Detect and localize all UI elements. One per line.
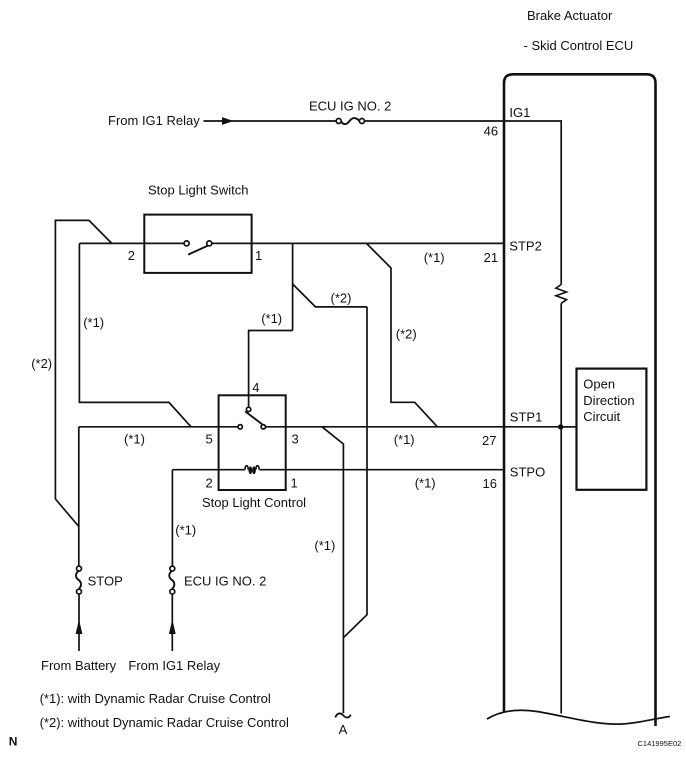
wire (*2) jog down to STOP fuse line xyxy=(55,499,78,527)
svg-text:Stop Light Switch: Stop Light Switch xyxy=(148,183,248,198)
wire STP2 row: switch pin2 side xyxy=(79,242,184,244)
svg-text:Brake Actuator: Brake Actuator xyxy=(527,8,613,23)
svg-text:3: 3 xyxy=(292,432,299,447)
junction dot on STP1 line xyxy=(558,424,563,429)
fuse ECU IG NO. 2 (top) xyxy=(336,118,364,124)
svg-text:4: 4 xyxy=(252,380,259,395)
svg-text:N: N xyxy=(9,735,18,749)
relay blade xyxy=(245,411,262,424)
arrow on IG1 feed wire xyxy=(222,117,234,125)
svg-text:(*1): (*1) xyxy=(314,538,335,553)
break symbol above node A xyxy=(335,713,350,717)
resistor inside ECU xyxy=(556,285,567,304)
svg-text:(*1): (*1) xyxy=(175,523,196,538)
svg-text:From Battery: From Battery xyxy=(41,658,117,673)
svg-text:1: 1 xyxy=(255,248,262,263)
relay contact pin5 xyxy=(238,425,242,429)
ECU block Brake Actuator / Skid Control ECU outline xyxy=(504,74,656,726)
svg-text:(*2): (*2) xyxy=(331,291,352,306)
svg-text:2: 2 xyxy=(128,248,135,263)
relay contact pin4 xyxy=(246,407,250,411)
svg-text:STOP: STOP xyxy=(88,574,123,589)
wire (*2) right path STP2 to STP1 xyxy=(367,243,438,426)
relay coil in Stop Light Control xyxy=(245,466,259,474)
wire STP1 row left: corner to control pin 5 xyxy=(79,426,238,428)
wire From IG1 Relay to top fuse xyxy=(204,120,337,122)
fuse ECU IG NO. 2 (bottom) xyxy=(169,566,174,594)
svg-text:Stop Light Control: Stop Light Control xyxy=(202,495,306,510)
svg-text:1: 1 xyxy=(291,476,298,491)
wire STP1 row right: control pin 3 to ECU xyxy=(266,426,562,428)
wire From IG1 Relay riser with arrow xyxy=(171,594,173,651)
svg-text:21: 21 xyxy=(484,250,498,265)
svg-text:- Skid Control ECU: - Skid Control ECU xyxy=(524,38,634,53)
svg-text:(*1): (*1) xyxy=(261,311,282,326)
wire STPO row left of coil xyxy=(172,469,245,471)
wire junction to Open Direction Circuit box xyxy=(561,426,575,428)
svg-text:27: 27 xyxy=(482,433,496,448)
svg-text:(*1): (*1) xyxy=(124,432,145,447)
stop light switch blade xyxy=(188,246,207,255)
svg-text:From IG1 Relay: From IG1 Relay xyxy=(108,113,200,128)
svg-text:16: 16 xyxy=(483,476,497,491)
box Open Direction Circuit xyxy=(577,369,647,490)
svg-text:(*1): with Dynamic Radar Cruis: (*1): with Dynamic Radar Cruise Control xyxy=(40,691,271,706)
stop light switch contacts xyxy=(184,241,212,246)
wire STP1 branch down to A xyxy=(322,427,343,714)
wire top-left branch (corner) to STP2 row xyxy=(55,220,111,499)
svg-text:A: A xyxy=(339,722,348,737)
svg-text:Open: Open xyxy=(583,377,615,392)
wire jog to control pin 4 xyxy=(249,331,293,408)
wire top fuse to ECU pin IG1 and internal run to resistor xyxy=(365,121,562,285)
svg-text:C141995E02: C141995E02 xyxy=(638,739,682,748)
box Stop Light Control xyxy=(219,395,286,490)
svg-text:(*1): (*1) xyxy=(394,432,415,447)
svg-text:2: 2 xyxy=(206,476,213,491)
wire STP1 row corner down to STOP fuse xyxy=(78,427,80,566)
svg-text:5: 5 xyxy=(206,432,213,447)
wire STP2 down-branch at x=292.6 xyxy=(292,243,294,330)
svg-text:STP2: STP2 xyxy=(509,239,542,254)
wire From Battery riser with arrow xyxy=(78,594,80,651)
wire switch pin2 down (*1) path to STP1 row xyxy=(79,243,191,426)
wire control pin2 down to bottom fuse xyxy=(171,470,173,567)
svg-text:(*2): (*2) xyxy=(31,356,52,371)
wire STPO row right of coil xyxy=(259,469,504,471)
svg-text:ECU IG NO. 2: ECU IG NO. 2 xyxy=(309,99,391,114)
svg-text:From IG1 Relay: From IG1 Relay xyxy=(128,658,220,673)
svg-text:(*2): (*2) xyxy=(396,327,417,342)
relay contact pin3 xyxy=(261,425,265,429)
svg-text:46: 46 xyxy=(484,124,498,139)
box Stop Light Switch xyxy=(144,215,251,273)
svg-text:(*2): without Dynamic Radar Cr: (*2): without Dynamic Radar Cruise Contr… xyxy=(40,715,289,730)
svg-text:(*1): (*1) xyxy=(415,476,436,491)
svg-text:Circuit: Circuit xyxy=(583,409,620,424)
svg-text:Direction: Direction xyxy=(583,393,634,408)
svg-text:(*1): (*1) xyxy=(424,250,445,265)
fuse STOP xyxy=(76,566,81,594)
svg-text:IG1: IG1 xyxy=(509,105,530,120)
wire resistor to STP1 junction and down to torn edge xyxy=(560,303,562,713)
wire (*2) mid branch diagonal xyxy=(293,284,367,307)
wire (*2) mid vertical down to A merge xyxy=(343,307,367,638)
svg-text:STPO: STPO xyxy=(510,465,545,480)
wire STP2 row: switch pin1 to ECU xyxy=(212,242,504,244)
svg-text:(*1): (*1) xyxy=(83,315,104,330)
svg-text:ECU IG NO. 2: ECU IG NO. 2 xyxy=(184,574,266,589)
ECU torn bottom edge wave xyxy=(487,710,670,724)
svg-text:STP1: STP1 xyxy=(510,410,543,425)
